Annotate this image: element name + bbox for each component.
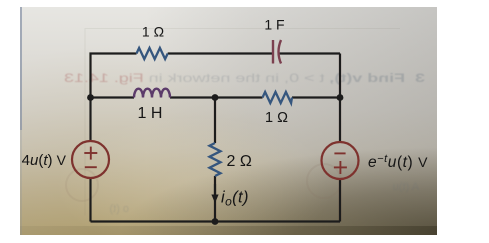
svg-text:2 Ω: 2 Ω xyxy=(227,153,252,170)
svg-text:1 Ω: 1 Ω xyxy=(265,110,288,126)
svg-text:1 F: 1 F xyxy=(264,17,284,33)
svg-text:3 Find v(t), t > 0, in the ne: 3 Find v(t), t > 0, in the network in Fi… xyxy=(64,71,425,85)
svg-text:e−tu(t) V: e−tu(t) V xyxy=(368,153,428,171)
svg-text:1 Ω: 1 Ω xyxy=(142,24,164,40)
svg-text:A (t)u: A (t)u xyxy=(393,181,419,193)
svg-text:1 H: 1 H xyxy=(138,105,163,122)
svg-text:4u(t) V: 4u(t) V xyxy=(22,152,67,169)
svg-text:o (t): o (t) xyxy=(109,203,129,215)
